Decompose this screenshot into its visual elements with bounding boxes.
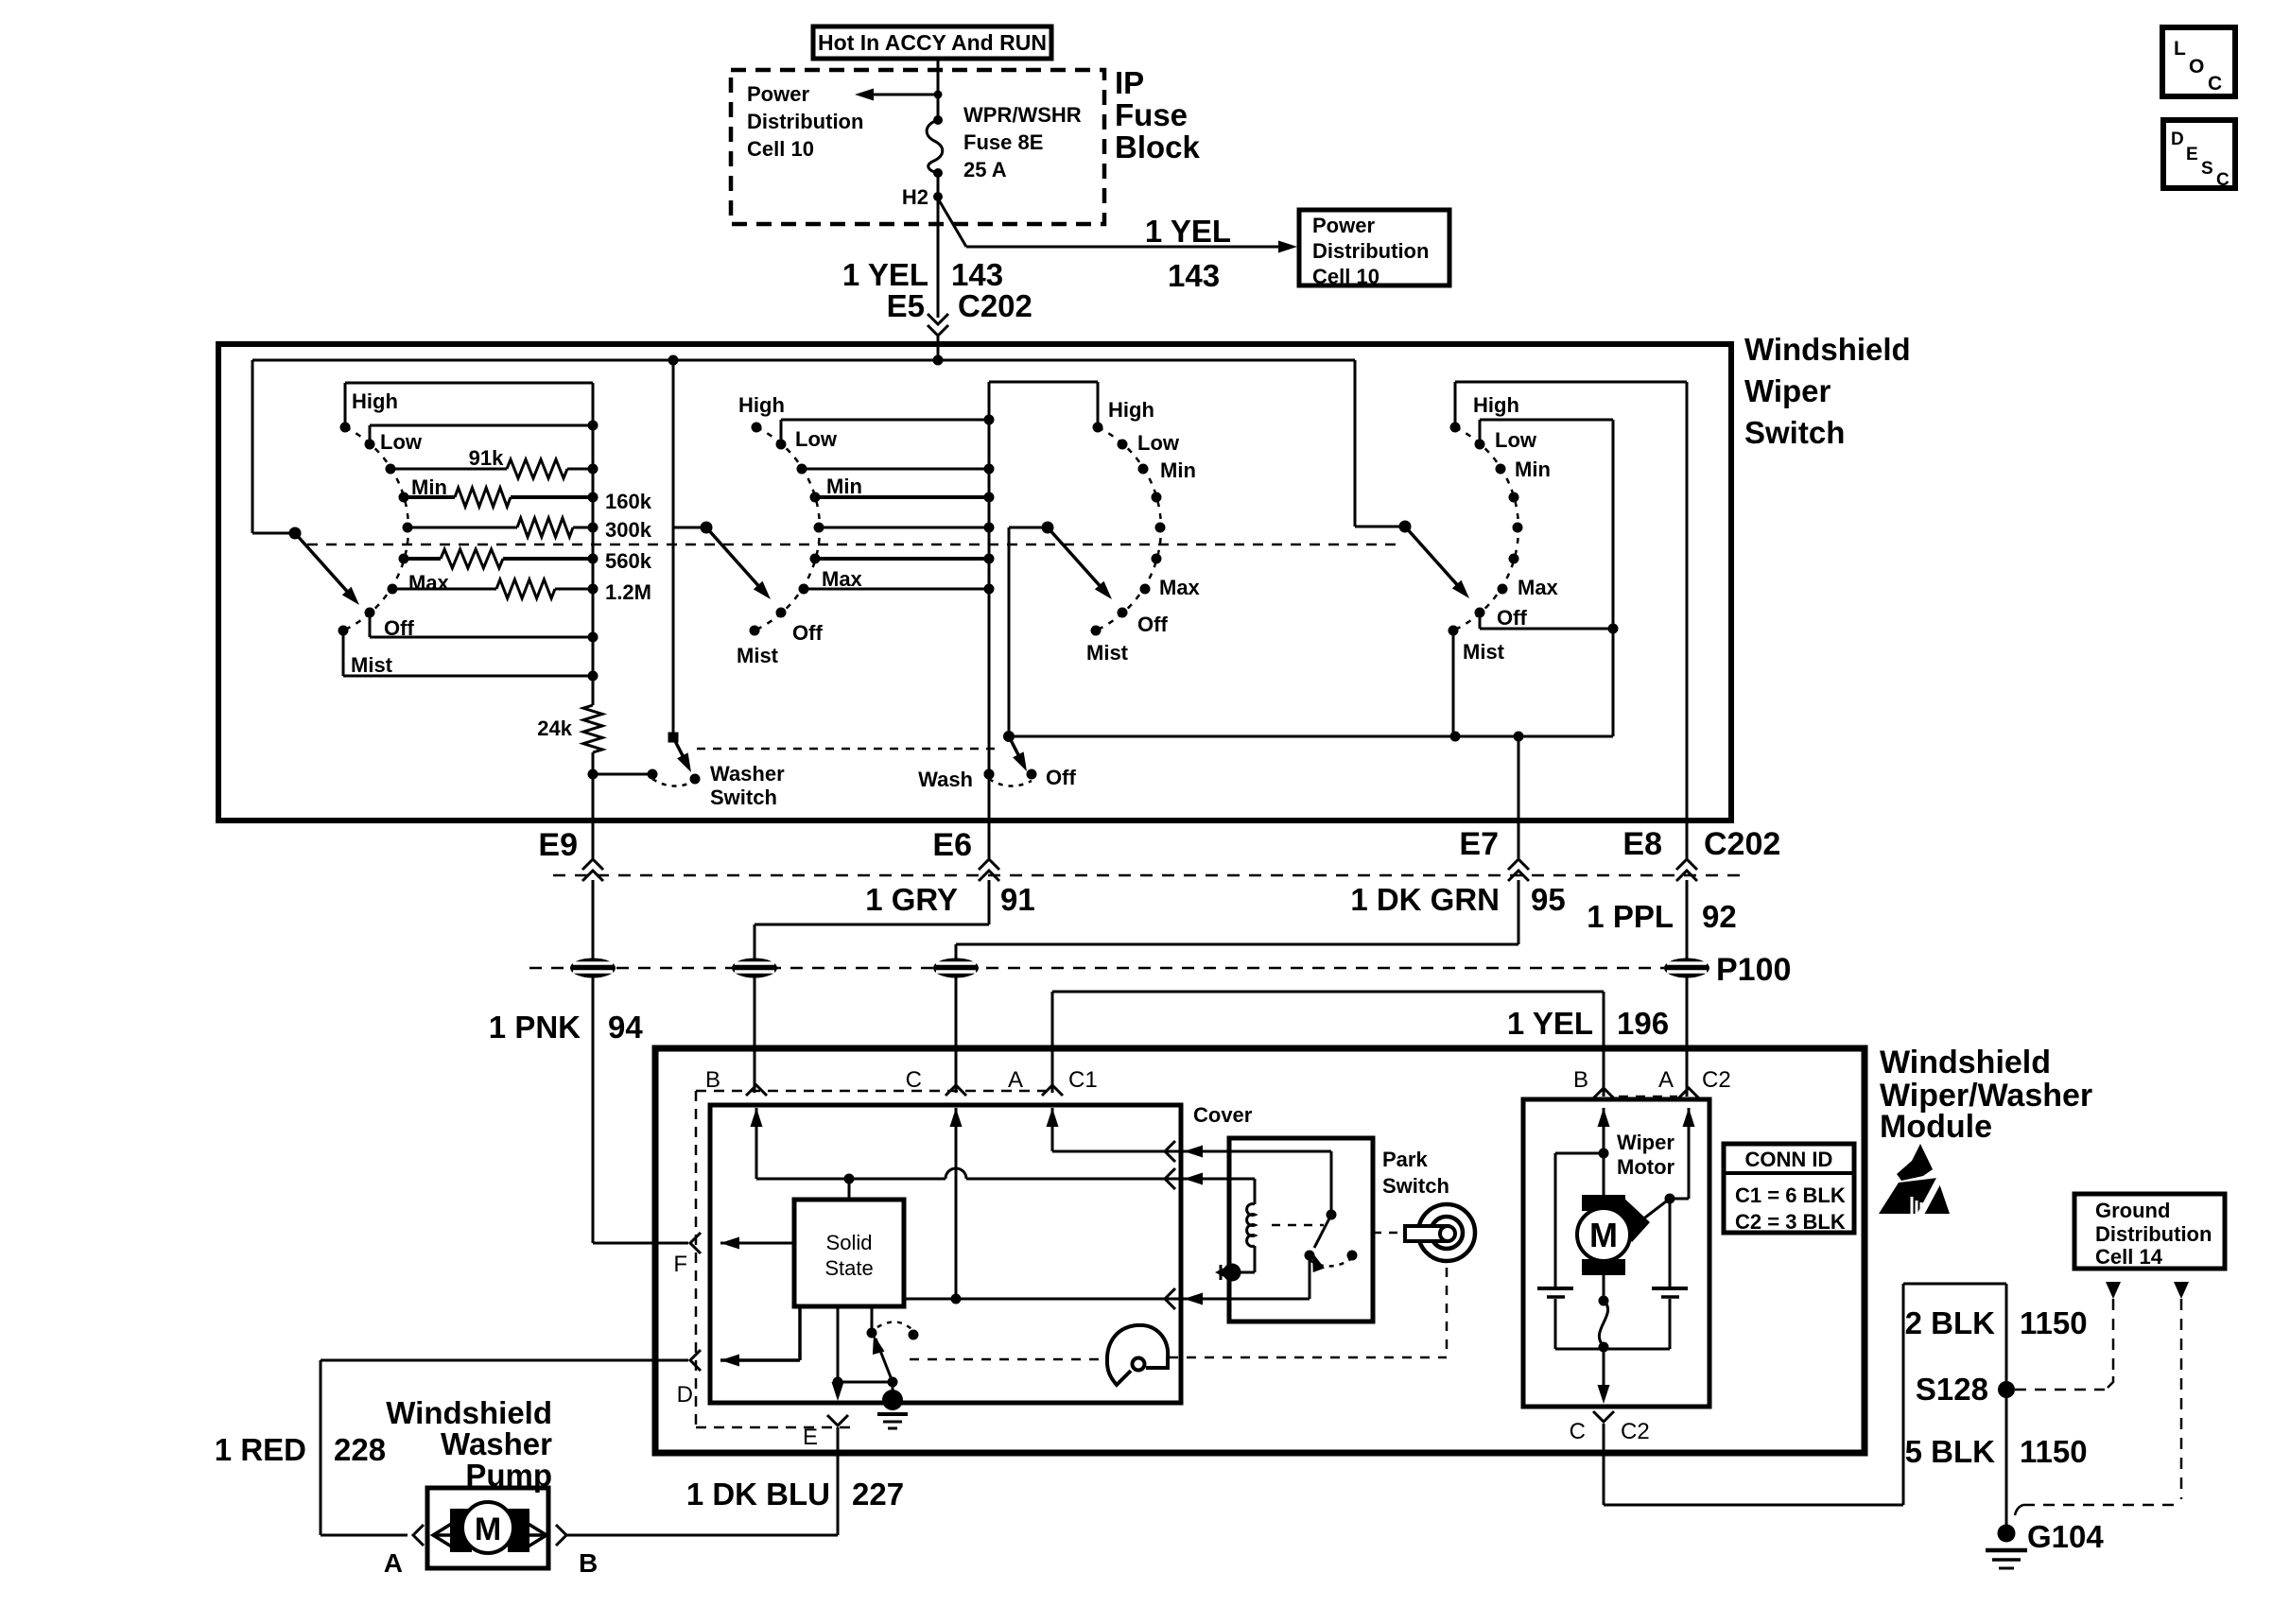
svg-text:Cell 14: Cell 14 xyxy=(2095,1245,2163,1269)
svg-text:Block: Block xyxy=(1115,130,1201,164)
svg-text:Off: Off xyxy=(1046,766,1076,789)
svg-text:Washer: Washer xyxy=(710,762,785,786)
svg-text:Solid: Solid xyxy=(826,1231,873,1254)
svg-text:560k: 560k xyxy=(605,549,652,573)
svg-text:G104: G104 xyxy=(2027,1519,2104,1554)
svg-text:Mist: Mist xyxy=(1463,640,1505,664)
svg-text:Power: Power xyxy=(1312,214,1375,237)
svg-text:Park: Park xyxy=(1382,1148,1428,1171)
svg-text:1150: 1150 xyxy=(2020,1305,2088,1340)
svg-text:Min: Min xyxy=(826,475,862,498)
svg-text:Switch: Switch xyxy=(1382,1174,1449,1198)
svg-text:Max: Max xyxy=(822,567,863,591)
svg-text:WPR/WSHR: WPR/WSHR xyxy=(963,103,1082,127)
svg-text:B: B xyxy=(579,1548,598,1578)
svg-text:E: E xyxy=(2186,145,2198,164)
svg-text:Off: Off xyxy=(792,621,823,645)
svg-text:1 GRY: 1 GRY xyxy=(865,882,958,917)
svg-text:Mist: Mist xyxy=(737,644,779,667)
svg-text:Washer: Washer xyxy=(441,1426,552,1461)
svg-text:Windshield: Windshield xyxy=(1744,332,1911,367)
svg-text:227: 227 xyxy=(852,1477,904,1512)
svg-text:C: C xyxy=(2216,170,2230,190)
svg-text:C1: C1 xyxy=(1068,1067,1098,1093)
svg-text:Fuse 8E: Fuse 8E xyxy=(963,130,1043,154)
svg-text:Off: Off xyxy=(1137,613,1168,636)
svg-text:1 YEL: 1 YEL xyxy=(1507,1006,1593,1041)
svg-text:CONN ID: CONN ID xyxy=(1745,1148,1833,1171)
svg-text:Windshield: Windshield xyxy=(386,1395,552,1430)
svg-text:1 RED: 1 RED xyxy=(215,1432,306,1467)
svg-text:Low: Low xyxy=(1495,428,1537,452)
svg-text:H2: H2 xyxy=(902,185,928,209)
svg-text:300k: 300k xyxy=(605,518,652,542)
svg-text:IP: IP xyxy=(1115,65,1144,100)
svg-text:5 BLK: 5 BLK xyxy=(1905,1434,1996,1469)
svg-text:25 A: 25 A xyxy=(963,158,1007,181)
svg-text:C2: C2 xyxy=(1702,1067,1731,1093)
svg-text:Min: Min xyxy=(411,475,447,499)
svg-text:Cell 10: Cell 10 xyxy=(1312,265,1379,288)
svg-text:228: 228 xyxy=(334,1432,386,1467)
svg-text:C: C xyxy=(2208,73,2222,95)
svg-text:Wash: Wash xyxy=(918,768,973,791)
svg-text:A: A xyxy=(384,1548,403,1578)
svg-text:1150: 1150 xyxy=(2020,1434,2088,1469)
svg-text:160k: 160k xyxy=(605,490,652,513)
svg-text:91: 91 xyxy=(1000,882,1035,917)
svg-text:Distribution: Distribution xyxy=(1312,239,1429,263)
svg-text:Max: Max xyxy=(1518,576,1559,599)
svg-text:Low: Low xyxy=(380,430,423,454)
svg-text:C2: C2 xyxy=(1621,1419,1650,1444)
svg-text:Wiper: Wiper xyxy=(1744,373,1831,408)
svg-text:Motor: Motor xyxy=(1617,1155,1675,1179)
svg-text:F: F xyxy=(673,1252,687,1277)
svg-text:Low: Low xyxy=(795,427,838,451)
svg-text:Mist: Mist xyxy=(351,653,393,677)
svg-text:24k: 24k xyxy=(537,717,572,740)
svg-text:91k: 91k xyxy=(469,446,504,470)
svg-text:C: C xyxy=(1570,1419,1586,1444)
svg-text:Min: Min xyxy=(1515,458,1551,481)
svg-text:E6: E6 xyxy=(932,827,972,863)
svg-text:D: D xyxy=(677,1382,693,1408)
svg-text:Module: Module xyxy=(1880,1109,1992,1145)
svg-text:Off: Off xyxy=(384,616,414,640)
svg-text:E7: E7 xyxy=(1459,826,1499,862)
svg-text:Fuse: Fuse xyxy=(1115,97,1188,132)
svg-text:C2 = 3 BLK: C2 = 3 BLK xyxy=(1735,1210,1846,1234)
svg-text:S: S xyxy=(2201,159,2213,179)
svg-text:Distribution: Distribution xyxy=(747,110,863,133)
svg-text:1 YEL: 1 YEL xyxy=(1145,214,1231,249)
svg-text:143: 143 xyxy=(951,257,1003,292)
svg-text:C: C xyxy=(906,1067,922,1093)
svg-text:A: A xyxy=(1008,1067,1023,1093)
svg-text:95: 95 xyxy=(1531,882,1566,917)
svg-text:High: High xyxy=(1108,398,1154,422)
svg-text:Cell 10: Cell 10 xyxy=(747,137,814,161)
svg-text:Distribution: Distribution xyxy=(2095,1222,2212,1246)
svg-text:P100: P100 xyxy=(1716,952,1791,988)
svg-text:Ground: Ground xyxy=(2095,1199,2170,1222)
svg-text:Max: Max xyxy=(1159,576,1201,599)
svg-text:C202: C202 xyxy=(958,288,1032,323)
svg-text:B: B xyxy=(1573,1067,1588,1093)
svg-text:M: M xyxy=(475,1512,501,1547)
svg-text:E: E xyxy=(803,1425,818,1450)
svg-text:Low: Low xyxy=(1137,431,1180,455)
svg-text:1 PPL: 1 PPL xyxy=(1587,899,1674,934)
svg-text:Windshield: Windshield xyxy=(1880,1045,2051,1080)
svg-text:1.2M: 1.2M xyxy=(605,580,651,604)
svg-text:C1 = 6 BLK: C1 = 6 BLK xyxy=(1735,1183,1846,1207)
svg-text:D: D xyxy=(2171,130,2184,149)
svg-text:High: High xyxy=(738,393,785,417)
svg-text:Off: Off xyxy=(1497,606,1527,630)
svg-text:196: 196 xyxy=(1617,1006,1669,1041)
svg-text:M: M xyxy=(1589,1216,1618,1254)
svg-text:L: L xyxy=(2174,38,2186,60)
svg-text:Min: Min xyxy=(1160,458,1196,482)
svg-text:E5: E5 xyxy=(887,288,925,323)
svg-text:Power: Power xyxy=(747,82,809,106)
svg-text:State: State xyxy=(824,1256,873,1280)
svg-text:E8: E8 xyxy=(1622,826,1662,862)
svg-text:Max: Max xyxy=(408,571,450,595)
svg-text:Cover: Cover xyxy=(1193,1103,1253,1127)
svg-text:S128: S128 xyxy=(1916,1372,1988,1407)
svg-text:High: High xyxy=(1473,393,1519,417)
svg-text:Hot In ACCY And RUN: Hot In ACCY And RUN xyxy=(818,30,1047,55)
svg-text:1 DK BLU: 1 DK BLU xyxy=(686,1477,830,1512)
svg-text:Mist: Mist xyxy=(1086,641,1129,665)
svg-text:1 PNK: 1 PNK xyxy=(489,1010,581,1045)
svg-text:1 YEL: 1 YEL xyxy=(842,257,928,292)
svg-text:1 DK GRN: 1 DK GRN xyxy=(1350,882,1500,917)
svg-text:94: 94 xyxy=(608,1010,643,1045)
svg-text:143: 143 xyxy=(1168,258,1220,293)
svg-text:A: A xyxy=(1658,1067,1674,1093)
svg-text:Wiper: Wiper xyxy=(1617,1131,1674,1154)
svg-text:Switch: Switch xyxy=(710,786,777,809)
svg-text:E9: E9 xyxy=(538,827,578,863)
svg-text:O: O xyxy=(2189,56,2204,78)
svg-text:Switch: Switch xyxy=(1744,415,1845,450)
svg-text:High: High xyxy=(352,389,398,413)
svg-text:B: B xyxy=(705,1067,720,1093)
svg-text:2 BLK: 2 BLK xyxy=(1905,1305,1996,1340)
svg-text:92: 92 xyxy=(1702,899,1737,934)
svg-text:C202: C202 xyxy=(1704,826,1780,862)
